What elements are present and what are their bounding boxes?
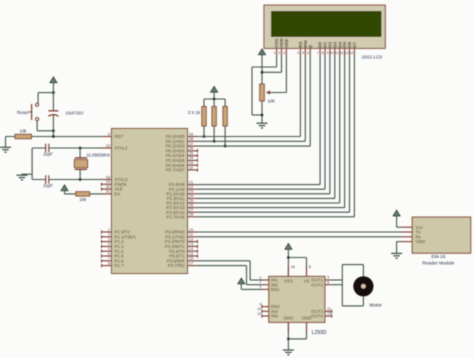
svg-text:4: 4 xyxy=(108,242,110,246)
svg-text:P2.7/A15: P2.7/A15 xyxy=(166,214,185,219)
svg-text:RST: RST xyxy=(115,134,124,139)
svg-text:14: 14 xyxy=(327,312,331,316)
svg-text:22: 22 xyxy=(189,185,193,189)
svg-text:11: 11 xyxy=(189,233,193,237)
svg-text:6: 6 xyxy=(307,51,309,55)
svg-text:12: 12 xyxy=(340,51,344,55)
svg-text:3 X 1K: 3 X 1K xyxy=(188,110,201,115)
svg-text:EN1: EN1 xyxy=(271,287,280,292)
svg-text:37: 37 xyxy=(189,142,193,146)
svg-text:E: E xyxy=(308,45,313,48)
svg-text:10K: 10K xyxy=(268,99,276,104)
svg-text:34: 34 xyxy=(189,156,193,160)
svg-text:25: 25 xyxy=(189,199,193,203)
svg-text:EM-18: EM-18 xyxy=(431,254,445,259)
svg-text:28: 28 xyxy=(189,213,193,217)
svg-text:10uF/16V: 10uF/16V xyxy=(65,111,83,116)
svg-text:22pF: 22pF xyxy=(43,183,53,188)
svg-text:24: 24 xyxy=(189,194,193,198)
svg-text:6: 6 xyxy=(327,280,329,284)
svg-text:GND: GND xyxy=(416,239,426,244)
svg-text:21: 21 xyxy=(189,180,193,184)
svg-text:GND: GND xyxy=(284,316,294,321)
svg-text:27: 27 xyxy=(189,208,193,212)
svg-text:9: 9 xyxy=(259,302,261,306)
svg-text:GND: GND xyxy=(302,316,312,321)
svg-text:36: 36 xyxy=(189,147,193,151)
svg-text:IN4: IN4 xyxy=(271,314,278,319)
svg-text:7: 7 xyxy=(317,51,319,55)
svg-text:Reset: Reset xyxy=(17,110,29,115)
svg-text:23: 23 xyxy=(189,190,193,194)
svg-text:38: 38 xyxy=(189,137,193,141)
svg-text:11.0592MHz: 11.0592MHz xyxy=(87,152,110,157)
svg-text:2: 2 xyxy=(259,276,261,280)
svg-text:39: 39 xyxy=(189,132,193,136)
svg-text:10k: 10k xyxy=(20,129,28,134)
svg-text:9: 9 xyxy=(108,132,110,136)
svg-text:4: 4 xyxy=(297,51,299,55)
svg-text:2: 2 xyxy=(278,51,280,55)
svg-text:D7: D7 xyxy=(352,41,357,47)
svg-text:16: 16 xyxy=(189,257,193,261)
svg-text:3: 3 xyxy=(283,51,285,55)
svg-text:13: 13 xyxy=(189,242,193,246)
svg-text:16: 16 xyxy=(291,265,295,269)
svg-text:35: 35 xyxy=(189,151,193,155)
svg-text:29: 29 xyxy=(106,180,110,184)
svg-text:31: 31 xyxy=(106,190,110,194)
svg-text:P0.7/AD7: P0.7/AD7 xyxy=(166,168,185,173)
svg-text:6: 6 xyxy=(108,252,110,256)
svg-text:3: 3 xyxy=(327,276,329,280)
svg-text:P3.7/RD: P3.7/RD xyxy=(168,263,185,268)
svg-text:P1.7: P1.7 xyxy=(115,263,125,268)
svg-text:5: 5 xyxy=(302,51,304,55)
svg-text:1: 1 xyxy=(108,228,110,232)
svg-text:OUT2: OUT2 xyxy=(311,282,323,287)
svg-text:22pF: 22pF xyxy=(43,152,53,157)
svg-text:Reader Module: Reader Module xyxy=(422,260,454,265)
svg-text:18: 18 xyxy=(106,175,110,179)
svg-text:OUT4: OUT4 xyxy=(311,314,323,319)
svg-text:VEE: VEE xyxy=(284,39,289,48)
svg-text:9: 9 xyxy=(327,51,329,55)
svg-text:13: 13 xyxy=(345,51,349,55)
svg-text:1: 1 xyxy=(259,285,261,289)
svg-text:3: 3 xyxy=(108,237,110,241)
svg-text:11: 11 xyxy=(335,51,339,55)
svg-text:10k: 10k xyxy=(79,197,87,202)
svg-text:Motor: Motor xyxy=(370,302,383,308)
svg-text:5: 5 xyxy=(108,247,110,251)
svg-text:10: 10 xyxy=(257,307,261,311)
svg-text:8: 8 xyxy=(322,51,324,55)
svg-text:10: 10 xyxy=(330,51,334,55)
svg-text:VSS: VSS xyxy=(284,279,293,284)
svg-text:EA: EA xyxy=(115,192,121,197)
svg-text:8: 8 xyxy=(108,261,110,265)
svg-text:10: 10 xyxy=(189,228,193,232)
svg-text:16X2 LCD: 16X2 LCD xyxy=(362,54,384,59)
svg-text:1: 1 xyxy=(274,51,276,55)
svg-text:14: 14 xyxy=(349,51,353,55)
svg-text:26: 26 xyxy=(189,203,193,207)
svg-text:7: 7 xyxy=(259,281,261,285)
svg-text:32: 32 xyxy=(189,166,193,170)
svg-text:7: 7 xyxy=(108,257,110,261)
svg-text:14: 14 xyxy=(189,247,193,251)
svg-text:8: 8 xyxy=(309,265,311,269)
svg-text:15: 15 xyxy=(257,312,261,316)
svg-text:30: 30 xyxy=(106,185,110,189)
svg-text:11: 11 xyxy=(327,307,331,311)
svg-text:2: 2 xyxy=(108,233,110,237)
svg-text:L293D: L293D xyxy=(312,330,327,336)
svg-text:17: 17 xyxy=(189,261,193,265)
svg-text:XTAL1: XTAL1 xyxy=(115,146,129,151)
svg-text:19: 19 xyxy=(106,144,110,148)
svg-text:12: 12 xyxy=(189,237,193,241)
svg-text:15: 15 xyxy=(189,252,193,256)
svg-text:VS: VS xyxy=(304,279,310,284)
svg-text:33: 33 xyxy=(189,161,193,165)
